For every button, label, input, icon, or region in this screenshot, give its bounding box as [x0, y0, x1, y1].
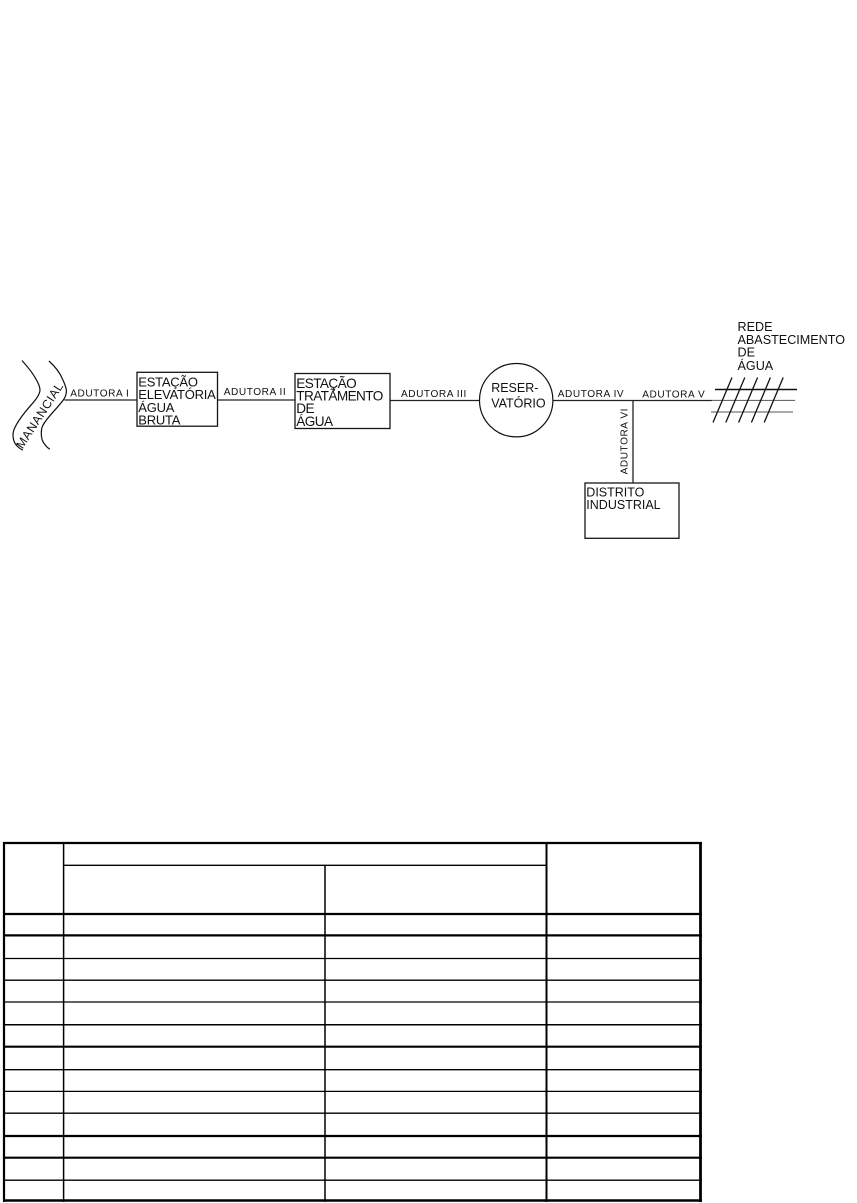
svg-text:VATÓRIO: VATÓRIO — [491, 396, 546, 411]
svg-text:ADUTORA V: ADUTORA V — [642, 390, 705, 401]
svg-text:ADUTORA III: ADUTORA III — [401, 389, 467, 400]
svg-text:ADUTORA IV: ADUTORA IV — [558, 389, 624, 400]
svg-text:ADUTORA VI: ADUTORA VI — [619, 408, 630, 474]
svg-text:ADUTORA II: ADUTORA II — [224, 387, 287, 398]
svg-text:DE: DE — [738, 346, 756, 360]
svg-text:ÁGUA: ÁGUA — [296, 414, 334, 429]
svg-text:ADUTORA I: ADUTORA I — [70, 389, 129, 400]
svg-text:INDUSTRIAL: INDUSTRIAL — [586, 498, 660, 512]
svg-text:RESER-: RESER- — [491, 381, 538, 395]
svg-text:BRUTA: BRUTA — [138, 413, 180, 428]
svg-text:ÁGUA: ÁGUA — [738, 358, 774, 373]
